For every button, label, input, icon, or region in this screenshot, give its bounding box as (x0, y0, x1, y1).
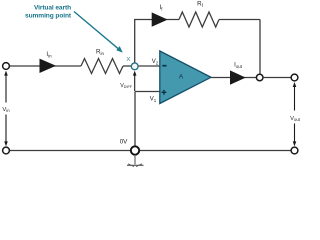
input terminal (3, 63, 10, 70)
wire: V1 input horizontal (135, 91, 161, 93)
current arrow If (152, 12, 168, 26)
svg-text:V1: V1 (150, 97, 157, 103)
svg-text:Vout: Vout (290, 116, 300, 122)
op-amp A (160, 51, 211, 104)
svg-text:A: A (179, 74, 184, 81)
op-amp minus input mark (162, 65, 166, 67)
Vout dimension line (293, 82, 297, 146)
annotation: virtual earth summing point text (25, 5, 72, 20)
op-amp plus input mark (162, 90, 167, 95)
svg-text:summing point: summing point (25, 13, 72, 20)
node X (131, 63, 138, 70)
resistor Rf zigzag (179, 12, 219, 27)
bottom-right terminal (291, 147, 298, 154)
svg-text:Vin: Vin (2, 107, 10, 113)
wire: node X up to feedback branch (134, 20, 136, 64)
wire: feedback top left segment (134, 19, 179, 21)
wire: resistor to node X (123, 65, 132, 67)
ground node on rail (131, 146, 139, 154)
current arrow Iout (230, 70, 246, 84)
svg-text:Virtual earth: Virtual earth (34, 5, 71, 12)
Vin dimension line (4, 71, 8, 147)
wire: feedback top right segment (219, 19, 260, 21)
wire: input from terminal to resistor (9, 65, 81, 67)
current arrow Iin (40, 59, 57, 73)
output node (256, 74, 263, 81)
resistor Rin zigzag (81, 59, 123, 74)
svg-text:0V: 0V (120, 139, 128, 146)
svg-text:X: X (126, 57, 130, 63)
bottom-left terminal (3, 147, 10, 154)
annotation arrow to node X (74, 12, 123, 53)
wire: output node to output terminal (263, 77, 291, 79)
dimension arrow Vdiff (node X to V1 wire) (133, 71, 137, 91)
output terminal (291, 74, 298, 81)
wire: feedback down to output node (259, 20, 261, 76)
wire: 0V rail (9, 150, 292, 152)
svg-text:V2: V2 (152, 59, 159, 65)
wire: node X to op-amp V2 input (138, 65, 161, 67)
wire: V1 down to 0V rail (134, 92, 136, 148)
wire: op-amp output to node (211, 77, 257, 79)
ground symbol (127, 155, 144, 167)
